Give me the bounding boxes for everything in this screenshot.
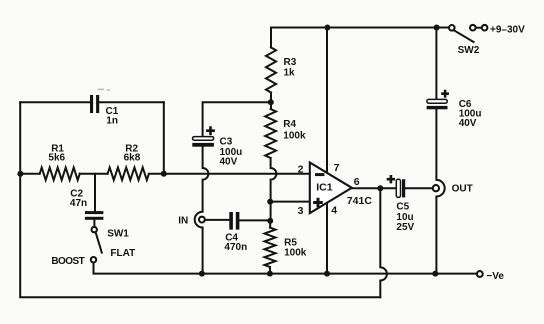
capacitor C3 (electrolytic) bbox=[193, 137, 214, 141]
C5 polarity plus bbox=[387, 175, 395, 183]
svg-text:+9–30V: +9–30V bbox=[490, 25, 525, 36]
wire BOOST contact down to ground rail bbox=[94, 263, 202, 274]
switch SW1 pole contact bbox=[92, 227, 97, 232]
wire C1 loop top left segment bbox=[20, 101, 90, 103]
supply connector link wire bbox=[476, 27, 482, 29]
svg-text:IN: IN bbox=[178, 216, 188, 227]
node R1 left / feedback bbox=[17, 171, 23, 177]
svg-text:40V: 40V bbox=[459, 118, 477, 129]
capacitor C4 bbox=[229, 212, 233, 230]
svg-text:7: 7 bbox=[334, 162, 340, 174]
wire left feedback loop: left vertical + bottom feedback line bbox=[20, 102, 380, 297]
switch SW1 lever bbox=[96, 233, 102, 253]
switch SW2 lever bbox=[454, 30, 474, 42]
svg-text:25V: 25V bbox=[396, 222, 414, 233]
svg-text:1k: 1k bbox=[284, 68, 296, 79]
op-amp IC1 triangle bbox=[310, 163, 352, 214]
wire pin 6 output bbox=[352, 187, 396, 189]
wire C2 branch from R1/R2 node bbox=[94, 174, 96, 211]
node C4/R5 bbox=[267, 218, 273, 224]
op-amp minus sign (pin 2) bbox=[315, 173, 324, 176]
svg-text:R3: R3 bbox=[284, 57, 297, 68]
wire node to R5 bbox=[269, 221, 271, 228]
wire C3/IN vertical: C3 bottom, hop over pin2 wire, IN terminal arc, down to rail bbox=[195, 147, 209, 274]
node pin4 ground bbox=[324, 271, 330, 277]
wire C4 to R4/R5 node bbox=[239, 219, 270, 221]
svg-text:2: 2 bbox=[298, 164, 304, 176]
node R3/R4/C3 bbox=[268, 99, 274, 105]
node R5 ground bbox=[267, 271, 273, 277]
svg-text:3: 3 bbox=[298, 205, 304, 217]
supply connector circle A bbox=[470, 25, 476, 31]
resistor R2 bbox=[108, 168, 149, 181]
svg-text:IC1: IC1 bbox=[316, 181, 333, 193]
terminal IN bbox=[199, 217, 205, 223]
terminal -Ve bbox=[477, 271, 483, 277]
switch SW1 throw contact (BOOST) bbox=[91, 257, 96, 262]
wire pin 7 from supply rail bbox=[326, 28, 328, 173]
svg-text:5k6: 5k6 bbox=[48, 152, 65, 163]
svg-text:470n: 470n bbox=[224, 242, 247, 253]
wire C3 top to R3/R4 node bbox=[203, 102, 271, 136]
node R2 right / C1 bbox=[161, 171, 167, 177]
terminal OUT bbox=[433, 185, 439, 191]
wire pin 4 to ground rail bbox=[326, 203, 328, 274]
resistor R1 bbox=[40, 168, 80, 181]
svg-text:SW2: SW2 bbox=[458, 45, 480, 56]
svg-text:1n: 1n bbox=[106, 116, 118, 127]
svg-text:47n: 47n bbox=[70, 198, 87, 209]
resistor R5 bbox=[265, 228, 276, 267]
wire R4 bottom, hop over pin2 wire, down to pin3 node bbox=[271, 158, 277, 221]
svg-text:6: 6 bbox=[354, 176, 360, 188]
svg-text:100k: 100k bbox=[284, 247, 307, 258]
node SW2/C6 supply bbox=[434, 25, 440, 31]
svg-text:FLAT: FLAT bbox=[110, 248, 135, 259]
wire top supply rail bbox=[271, 27, 449, 29]
svg-text:6k8: 6k8 bbox=[124, 152, 141, 163]
wire R3 bottom to node bbox=[270, 93, 272, 110]
wire feedback: output node down, hop over rail, to bottom line bbox=[380, 188, 387, 297]
C3 polarity plus bbox=[206, 126, 215, 135]
svg-text:OUT: OUT bbox=[452, 183, 473, 194]
svg-text:40V: 40V bbox=[220, 156, 238, 167]
op-amp plus sign (pin 3) bbox=[313, 198, 323, 208]
svg-text:−Ve: −Ve bbox=[486, 271, 504, 282]
capacitor C1 bbox=[90, 95, 93, 113]
svg-text:C5: C5 bbox=[396, 202, 409, 213]
node IN ground bbox=[199, 271, 205, 277]
C6 polarity plus bbox=[441, 90, 449, 98]
wire C2 to SW1 pole bbox=[93, 220, 95, 227]
wire bottom ground rail bbox=[202, 273, 477, 275]
node pin7 supply bbox=[324, 25, 330, 31]
svg-text:BOOST: BOOST bbox=[51, 256, 84, 267]
wire between R1 and R2 bbox=[80, 173, 108, 175]
wire C5 to OUT terminal bbox=[405, 187, 433, 189]
node output/feedback bbox=[377, 185, 383, 191]
wire C1 loop right vertical bbox=[163, 102, 165, 174]
capacitor C2 bbox=[85, 211, 104, 214]
supply connector circle B bbox=[482, 25, 488, 31]
wire pin3 node to op-amp pin 3 bbox=[270, 201, 310, 203]
svg-text:SW1: SW1 bbox=[107, 228, 129, 239]
svg-text:741C: 741C bbox=[347, 195, 373, 207]
wire IN to C4 bbox=[205, 219, 229, 221]
capacitor C5 (electrolytic) bbox=[396, 179, 400, 197]
node OUT column ground bbox=[432, 271, 438, 277]
svg-text:R4: R4 bbox=[283, 119, 296, 130]
resistor R4 bbox=[265, 109, 276, 158]
wire output vertical: supply node, C6, arc around OUT, to rail bbox=[436, 28, 444, 274]
wire C1 loop top right segment bbox=[99, 101, 164, 103]
wire input horizontal to pin 2 (R1, R2 in line) bbox=[20, 173, 40, 175]
svg-text:4: 4 bbox=[331, 204, 337, 216]
wire R2 to op-amp pin 2 bbox=[149, 173, 310, 175]
node pin3 bbox=[267, 199, 273, 205]
capacitor C6 (electrolytic) bbox=[427, 99, 447, 103]
wire R5 bottom lead to rail bbox=[269, 267, 271, 274]
wire R3 column top lead bbox=[270, 28, 272, 48]
svg-text:100k: 100k bbox=[283, 131, 306, 142]
resistor R3 bbox=[266, 48, 276, 93]
switch SW2 pole contact bbox=[449, 25, 455, 31]
